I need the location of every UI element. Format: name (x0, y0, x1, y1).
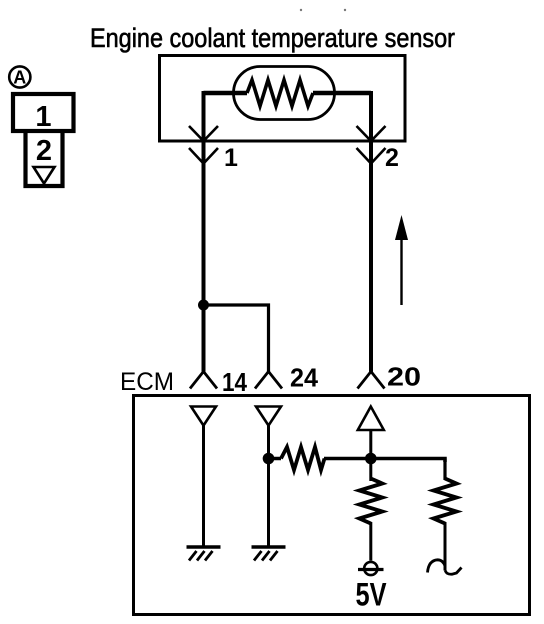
svg-text:24: 24 (290, 363, 319, 393)
svg-text:2: 2 (385, 144, 399, 172)
svg-text:1: 1 (35, 101, 51, 133)
svg-text:14: 14 (222, 367, 247, 397)
svg-text:A: A (13, 68, 26, 88)
svg-text:2: 2 (36, 135, 52, 167)
svg-text:20: 20 (387, 362, 421, 392)
svg-text:ECM: ECM (120, 368, 174, 396)
svg-text:1: 1 (224, 144, 238, 172)
svg-text:5V: 5V (356, 577, 388, 613)
svg-text:Engine coolant temperature sen: Engine coolant temperature sensor (90, 23, 455, 53)
